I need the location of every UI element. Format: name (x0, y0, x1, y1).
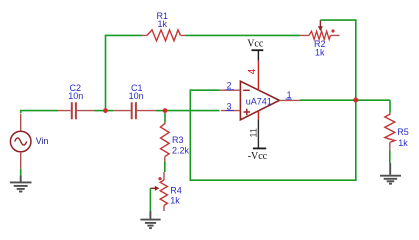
svg-text:4: 4 (247, 68, 258, 74)
wire R5 to ground (389, 151, 391, 164)
wire node A to C1 (107, 110, 113, 112)
pin 1 output lead (279, 90, 299, 100)
pin 3 lead (221, 102, 241, 112)
-Vcc power symbol (248, 148, 268, 162)
svg-text:Vcc: Vcc (247, 39, 264, 50)
svg-text:R3: R3 (172, 135, 184, 145)
node A junction (103, 108, 108, 113)
potentiometer R2 (300, 20, 340, 57)
svg-text:2.2k: 2.2k (172, 146, 190, 156)
svg-text:-Vcc: -Vcc (248, 151, 268, 162)
svg-text:10n: 10n (68, 91, 83, 101)
svg-text:2: 2 (227, 81, 232, 91)
svg-text:11: 11 (249, 128, 259, 137)
pin 4 power lead (247, 61, 259, 90)
Vcc power symbol (247, 39, 264, 61)
svg-text:uA741: uA741 (246, 96, 272, 106)
resistor R3 (161, 123, 190, 162)
wire output to R5 branch (300, 99, 390, 101)
op-amp U1 uA741 (240, 81, 279, 120)
capacitor C2 (58, 83, 95, 119)
svg-text:1k: 1k (315, 48, 325, 58)
svg-text:R5: R5 (397, 127, 409, 137)
pin 2 lead (220, 81, 241, 91)
capacitor C1 (113, 83, 155, 119)
svg-text:10n: 10n (129, 91, 144, 101)
wire C1 to node B (155, 110, 163, 112)
node B junction (163, 108, 168, 113)
ground under R5 (380, 163, 401, 184)
resistor R1 (142, 11, 185, 41)
wire top rail left segment (105, 34, 142, 36)
wire top rail middle segment (185, 34, 300, 36)
pin 11 power lead (249, 111, 259, 149)
potentiometer R4 (150, 172, 181, 211)
wire node B down to R3 (164, 113, 166, 123)
wire top-left vertical from node A to top rail (105, 35, 107, 110)
wire C2 to node A (95, 110, 105, 112)
wire R3 to R4 (164, 162, 166, 173)
svg-text:Vin: Vin (36, 136, 49, 146)
wire R2 wiper to output node and feedback loop (190, 20, 355, 180)
ground under R4 wiper (140, 211, 160, 228)
wire Vin to C2 (21, 111, 58, 113)
ground under Vin (10, 175, 32, 191)
wire R4 wiper to ground (149, 188, 151, 210)
wire node B to pin 3 (167, 110, 220, 112)
svg-text:1k: 1k (158, 19, 168, 29)
resistor R5 (385, 100, 409, 150)
source Vin (10, 114, 48, 152)
wire Vin bottom lead (20, 152, 22, 176)
svg-text:1k: 1k (170, 195, 180, 205)
svg-text:1k: 1k (398, 138, 408, 148)
svg-text:R4: R4 (170, 186, 182, 196)
node output junction (353, 98, 358, 103)
